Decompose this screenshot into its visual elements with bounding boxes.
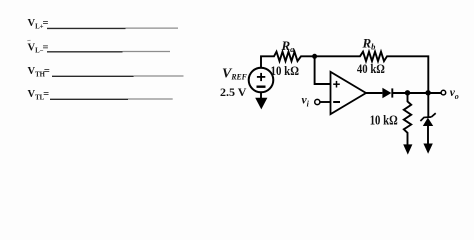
svg-text:Rb: Rb xyxy=(362,36,376,52)
svg-text:VTH=: VTH= xyxy=(28,66,50,78)
svg-text:VTL=: VTL= xyxy=(28,89,50,101)
svg-text:2.5 V: 2.5 V xyxy=(220,85,247,99)
svg-text:VL+=: VL+= xyxy=(28,18,49,30)
svg-text:vi: vi xyxy=(302,95,310,109)
svg-text:VL−=: VL−= xyxy=(28,42,49,54)
svg-text:40 kΩ: 40 kΩ xyxy=(357,61,385,76)
svg-text:VREF: VREF xyxy=(222,67,247,82)
svg-text:10 kΩ: 10 kΩ xyxy=(271,63,300,78)
svg-text:Ra: Ra xyxy=(281,38,296,54)
svg-text:vo: vo xyxy=(450,87,459,101)
svg-text:10 kΩ: 10 kΩ xyxy=(370,113,398,128)
